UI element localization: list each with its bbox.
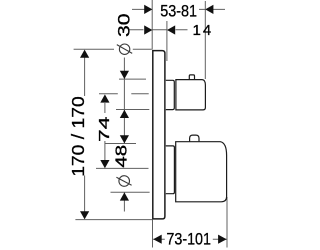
extension line d48 top (y=143.5) [105, 143, 137, 145]
extension line top of plate (y=49.3) [74, 48, 152, 50]
arrow 74 top [100, 94, 109, 102]
arrow 74 bottom [100, 160, 109, 168]
arrow 14 right [167, 25, 175, 34]
upper knob tab [189, 75, 194, 80]
text mask 53-81 [159, 2, 200, 19]
extension line bottom of plate (y=219.6) [75, 219, 152, 221]
extension line d48 bottom (y=192.2) [111, 191, 150, 193]
extension line knob front (x=205.3) [204, 1, 206, 79]
extension line lower knob axis (y=168.4) [96, 167, 149, 169]
arrow 73-101 left [153, 235, 162, 244]
svg-text:74: 74 [96, 117, 113, 142]
extension line wall vertical bottom (x=152.9) [152, 220, 154, 248]
extension line d30 bottom (y=109.5) [116, 109, 149, 111]
arrow 53-81 right [205, 5, 213, 14]
upper stub sleeve [166, 80, 175, 109]
arrow 170 top [80, 50, 89, 58]
wall plate side view [153, 51, 165, 219]
dimension line 74 (x=104.9) [104, 103, 106, 161]
diameter symbol for 30 [117, 44, 132, 54]
extension line d30 top (y=78.6) [119, 78, 146, 80]
svg-text:73-101: 73-101 [166, 230, 211, 248]
arrow 14 left [144, 25, 152, 34]
arrow 170 bottom [80, 211, 89, 219]
arrow d30 down [120, 71, 129, 79]
arrow d48 down [120, 135, 129, 143]
text mask 73-101 [165, 231, 213, 247]
extension line lower knob front bottom (x=227.2) [226, 197, 228, 248]
arrow 73-101 right [218, 235, 227, 244]
dimension line 170/170 (x=84.6) [84, 58, 86, 212]
dimension line 53-81 (y=9.3) [132, 8, 225, 10]
dimension line d30/d48 chain (x=124.3) [123, 58, 125, 212]
upper knob body [176, 80, 206, 110]
svg-text:170 / 170: 170 / 170 [68, 96, 88, 177]
dimension line 73-101 (y=238.1) [153, 238, 226, 240]
arrow 53-81 left [144, 5, 152, 14]
lower stub sleeve [166, 146, 175, 194]
svg-text:48: 48 [113, 145, 130, 168]
lower knob body [176, 142, 227, 202]
arrow d30 up [120, 110, 129, 118]
diameter symbol for 48 [116, 176, 131, 187]
dimension line 14 (y=29.8) [128, 29, 188, 31]
extension line wall vertical top (x=152.2) [151, 0, 153, 50]
lower knob tab [190, 135, 199, 141]
extension line upper knob axis (y=93.7) [99, 93, 149, 95]
svg-text:53-81: 53-81 [160, 3, 197, 21]
arrow d48 up [120, 192, 129, 200]
svg-text:30: 30 [114, 14, 133, 37]
extension line 14 right (x=166.9) [166, 21, 168, 61]
